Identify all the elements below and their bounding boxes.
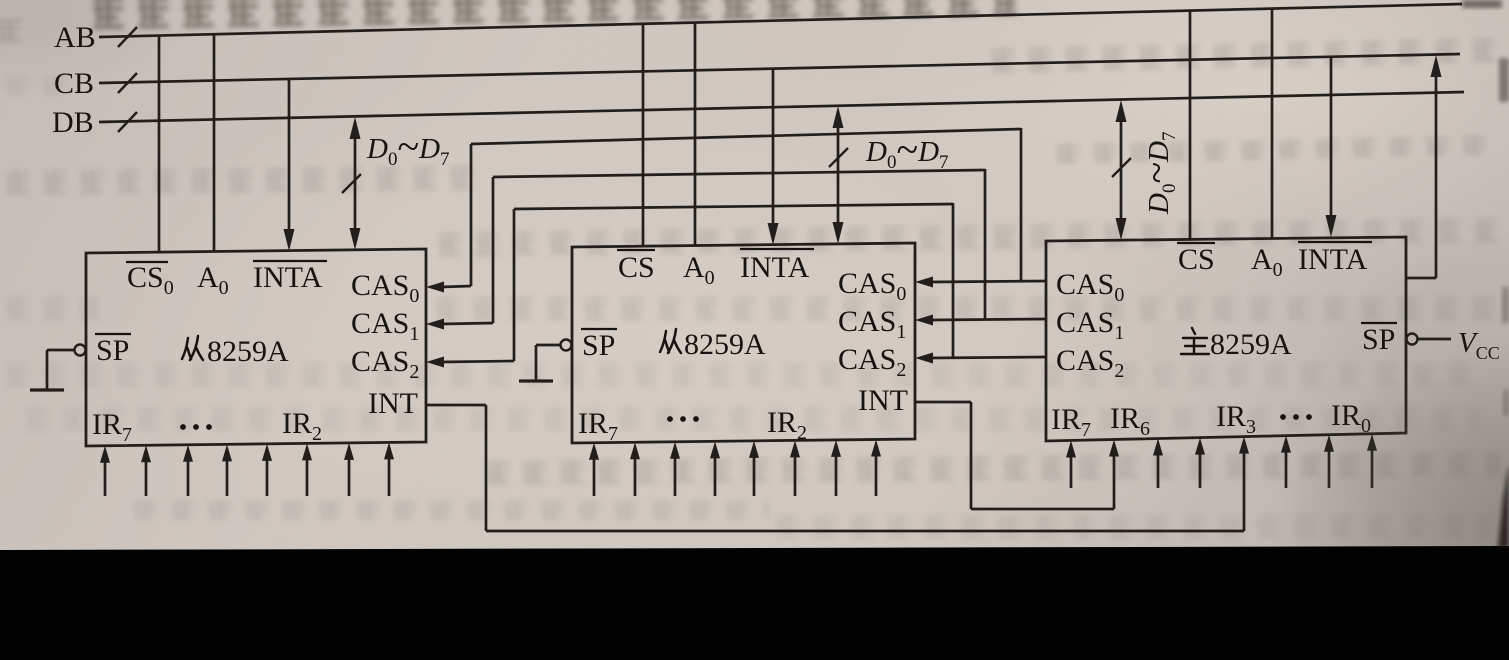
svg-text:CAS0: CAS0 [1056,268,1124,306]
wire AB to U1 A0 [213,35,216,251]
net CAS0 branch to U1 [1020,128,1023,281]
wire U2 SP to ground [536,344,560,347]
svg-text:8259A: 8259A [1210,328,1292,361]
svg-text:CAS1: CAS1 [838,305,906,343]
U2 chip name 从8259A [660,329,681,353]
svg-text:DB: DB [52,106,94,139]
U3 SP inverter bubble [1407,334,1418,345]
svg-text:CS: CS [618,251,655,284]
U2 ellipsis dots [667,416,699,422]
slash on U3 data bus [1112,158,1131,177]
U1 IR input arrow 8 [388,456,391,496]
net CAS0 master stub to U2 [930,281,1046,282]
svg-text:CAS2: CAS2 [838,343,906,381]
svg-text:AB: AB [54,21,96,54]
chip U1 slave 8259A box [86,249,426,446]
wire CB to U1 INTA [288,79,291,236]
net U2 INT to U3 IR6 [915,401,971,404]
ground symbol U2 [519,379,553,382]
U1 IR input arrow 5 [266,458,269,496]
U2 IR input arrow 5 [753,455,756,496]
overline INTA U3 [1298,241,1372,243]
U1 IR input arrow 3 [187,459,190,496]
U1 chip name 从8259A [182,336,203,360]
chip U3 master 8259A box [1046,237,1406,441]
U3 IR input arrow at x=1286 [1285,450,1288,488]
U1 IR input arrow 2 [145,459,148,496]
svg-text:INTA: INTA [1298,243,1368,276]
svg-text:CAS2: CAS2 [1056,344,1124,382]
U2 IR input arrow 4 [714,455,717,496]
wire AB to U3 A0 [1271,9,1274,238]
U1 IR input arrow 7 [348,457,351,496]
ground symbol U1 [30,388,64,391]
svg-text:CS: CS [1178,243,1215,276]
svg-text:INT: INT [858,384,908,417]
bus line DB [99,92,1464,122]
bus line AB [99,4,1462,37]
right edge printed fragment 4 [1503,390,1509,416]
slash on DB bus [118,112,137,132]
U1 IR input arrow 1 [104,460,107,496]
show-through text [128,496,768,520]
svg-text:CAS1: CAS1 [351,307,419,345]
overline INTA U2 [740,248,814,250]
show-through text [0,14,22,50]
show-through text [430,292,1509,320]
slash on U2 data bus [829,148,848,167]
U2 SP inverter bubble [561,340,572,351]
slash on AB bus [118,27,137,47]
svg-text:CAS0: CAS0 [351,269,419,307]
wire DB to U3 D0-D7 bidirectional arrow [1120,113,1123,226]
net CAS1 branch to U1 [984,169,987,320]
show-through text [0,292,100,320]
svg-text:CAS1: CAS1 [1056,306,1124,344]
overline CS0 U1 [126,261,168,263]
wire AB to U2 A0 [694,23,697,246]
show-through text [985,33,1509,74]
U1 IR input arrow 4 [226,458,229,496]
U3 IR input arrow at x=1372 [1371,448,1374,488]
overline SP U2 [581,328,617,330]
wire U1 SP to ground [47,349,74,352]
U3 ellipsis dots [1280,414,1312,420]
slash on CB bus [118,73,137,93]
slash on U1 data bus [342,174,361,193]
wire U3 SP to Vcc [1418,338,1451,341]
U3 chip name 主8259A [1181,328,1209,354]
U3 IR input arrow at x=1071 [1070,454,1073,488]
U1 ellipsis dots [180,424,212,430]
U2 IR input arrow 2 [634,456,637,496]
net U1 INT to U3 IR3 [426,404,486,407]
U2 IR input arrow 3 [674,456,677,496]
show-through text [770,510,1490,538]
show-through dark top text row [86,0,1016,30]
U3 IR input arrow at x=1158 [1157,453,1160,488]
right edge printed fragment 2 [1499,58,1509,102]
wire DB to U1 D0-D7 bidirectional arrow [354,130,357,236]
svg-text:SP: SP [582,329,615,362]
wire DB to U2 D0-D7 bidirectional arrow [837,119,840,230]
shadow above black bar bottom-right [1270,340,1509,660]
svg-text:INTA: INTA [253,261,323,294]
U3 IR input arrow at x=1200 [1199,452,1202,488]
U3 IR input arrow at x=1329 [1328,449,1331,488]
U2 IR input arrow 6 [794,454,797,496]
net CAS2 branch to U1 [952,203,955,358]
U2 IR input arrow 8 [875,453,878,496]
show-through text [480,447,1500,486]
wire AB to U3 CS [1189,11,1192,239]
show-through text [0,161,485,196]
net CAS2 master stub to U2 [930,357,1046,358]
wire AB to U1 CS0 [158,36,161,252]
U1 SP inverter bubble [75,345,86,356]
bus line CB [99,54,1460,83]
right edge printed fragment 1 [1462,0,1502,8]
overline SP U1 [95,333,131,335]
net CAS1 master stub to U2 [930,319,1046,320]
svg-text:INT: INT [368,387,418,420]
show-through text [20,402,1480,430]
overline CS U3 [1177,242,1215,244]
black bottom bar (photo edge) [0,546,1509,660]
wire down to ground U1 [46,350,49,389]
svg-text:8259A: 8259A [207,335,289,368]
right edge printed fragment 3 [1502,287,1509,323]
svg-text:SP: SP [96,334,129,367]
svg-text:INTA: INTA [740,251,810,284]
wire CB to U3 INTA [1330,56,1333,223]
svg-text:8259A: 8259A [684,328,766,361]
svg-text:SP: SP [1362,323,1395,356]
wire AB to U2 CS [642,24,645,246]
U2 IR input arrow 1 [593,457,596,496]
black right edge wedge (photo edge) [1498,462,1509,548]
chip U2 slave 8259A box [572,243,915,443]
svg-text:CB: CB [54,67,94,100]
overline INTA U1 [253,260,327,262]
overline SP U3 [1361,322,1397,324]
svg-text:CAS2: CAS2 [351,345,419,383]
show-through text [0,72,70,96]
show-through text [1050,131,1500,164]
show-through text [432,213,1509,258]
wire down to ground U2 [535,345,538,380]
svg-text:CAS0: CAS0 [838,267,906,305]
wire CB to U2 INTA [772,69,775,230]
U2 IR input arrow 7 [835,454,838,496]
U1 IR input arrow 6 [306,457,309,496]
wire U3 INT output to CB [1406,277,1436,280]
overline CS U2 [617,249,655,251]
show-through text [0,358,1470,386]
